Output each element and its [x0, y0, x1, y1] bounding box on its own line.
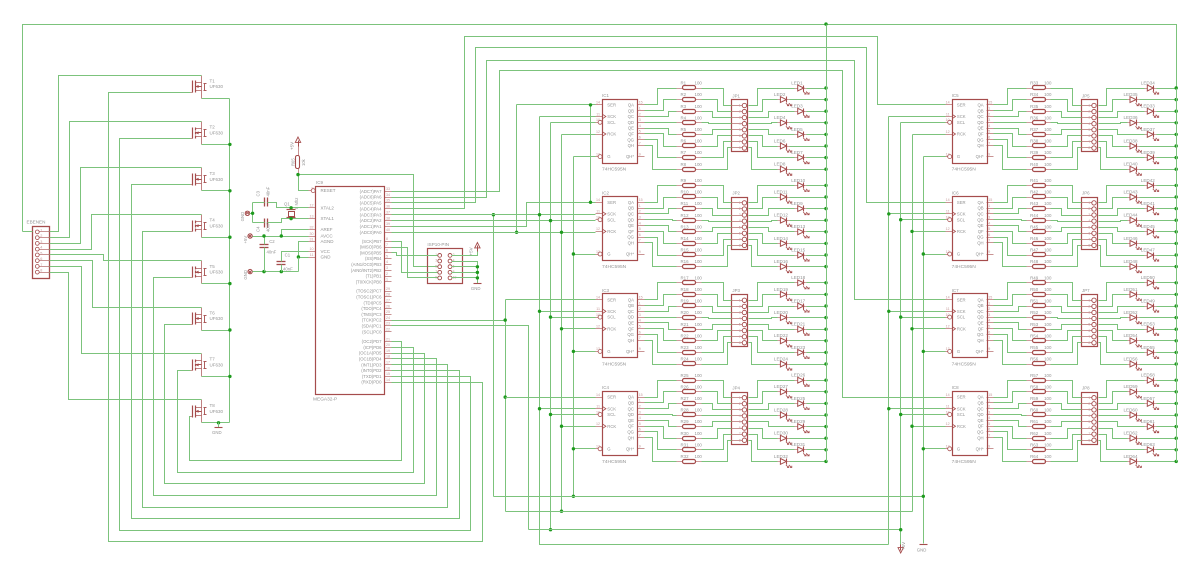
- wire SCL tap IC6: [901, 219, 946, 221]
- wire IC QH to R24: [645, 341, 677, 365]
- junction cathode rail: [1175, 184, 1178, 187]
- junction cathode rail: [824, 184, 827, 187]
- wire JP pin6 to LED46: [1099, 234, 1128, 244]
- svg-text:100: 100: [695, 333, 703, 338]
- LED15: [791, 247, 809, 261]
- svg-text:(SS)PB4: (SS)PB4: [365, 256, 382, 261]
- svg-text:SCK: SCK: [957, 309, 966, 314]
- svg-text:1: 1: [1088, 104, 1090, 108]
- svg-text:IC4: IC4: [602, 385, 610, 390]
- svg-text:(ADC6)PA6: (ADC6)PA6: [360, 195, 383, 200]
- svg-text:12: 12: [310, 204, 314, 208]
- svg-text:100: 100: [1044, 259, 1052, 264]
- wire GND row bottom: [253, 271, 299, 273]
- svg-text:(TMS)PC3: (TMS)PC3: [361, 312, 382, 317]
- svg-text:40nF: 40nF: [266, 222, 271, 232]
- wire JP pin7 to LED47: [1099, 240, 1145, 256]
- svg-text:G: G: [607, 154, 610, 159]
- svg-text:(TOSC1)PC6: (TOSC1)PC6: [356, 295, 382, 300]
- svg-text:3: 3: [1088, 408, 1090, 412]
- svg-text:QB: QB: [977, 303, 983, 308]
- wire RCK bus (right): [913, 134, 946, 136]
- svg-text:11: 11: [596, 112, 600, 116]
- LED27: [774, 384, 792, 398]
- svg-text:100: 100: [1044, 322, 1052, 327]
- junction cathode rail: [1175, 219, 1178, 222]
- svg-text:QH*: QH*: [976, 446, 984, 451]
- wire R21 to JP pin5: [702, 325, 732, 330]
- svg-text:3: 3: [639, 313, 641, 317]
- wire LED14 cathode to rail: [790, 243, 827, 245]
- svg-text:R4: R4: [681, 115, 687, 120]
- wire LED28 cathode to rail: [790, 415, 827, 417]
- svg-text:JP3: JP3: [732, 288, 740, 293]
- wire RCK tap IC4: [562, 426, 596, 428]
- svg-text:G: G: [607, 252, 610, 257]
- junction cathode rail: [1175, 242, 1178, 245]
- resistor R24 100: [677, 357, 703, 366]
- svg-text:8: 8: [1088, 243, 1090, 247]
- junction SCK bus: [538, 213, 541, 216]
- svg-text:16: 16: [386, 366, 390, 370]
- junction cathode rail: [824, 351, 827, 354]
- wire T8 gate to MCU PD0... net: [190, 342, 402, 461]
- svg-text:3: 3: [739, 408, 741, 412]
- ground flag GND: [240, 211, 249, 221]
- svg-text:LED13: LED13: [791, 224, 805, 229]
- svg-text:13: 13: [596, 152, 600, 156]
- svg-text:3: 3: [988, 118, 990, 122]
- wire R47 to JP pin7: [1051, 240, 1082, 256]
- svg-text:3: 3: [1088, 311, 1090, 315]
- LED64: [1124, 454, 1142, 468]
- svg-text:13: 13: [596, 445, 600, 449]
- svg-text:1: 1: [639, 107, 641, 111]
- junction cathode rail: [824, 133, 827, 136]
- wire R45 to JP pin5: [1051, 228, 1082, 232]
- junction cathode rail: [824, 281, 827, 284]
- transistor T2 UF630: [191, 122, 224, 145]
- resistor R65 10k: [291, 147, 307, 175]
- wire R19 to JP pin3: [702, 307, 732, 313]
- resistor R23 100: [677, 345, 703, 355]
- svg-text:2: 2: [1088, 110, 1090, 114]
- svg-text:2: 2: [988, 405, 990, 409]
- svg-text:3: 3: [739, 311, 741, 315]
- svg-text:EBENEN: EBENEN: [27, 220, 46, 225]
- wire JP pin3 to LED3: [749, 112, 795, 118]
- svg-text:R60: R60: [1030, 408, 1039, 413]
- svg-text:R55: R55: [1030, 345, 1039, 350]
- wire IC QA to R57: [994, 381, 1027, 398]
- wire R38 to JP pin6: [1051, 136, 1082, 147]
- svg-text:SCK: SCK: [607, 114, 616, 119]
- svg-text:R58: R58: [1030, 384, 1039, 389]
- svg-text:100: 100: [695, 127, 703, 132]
- svg-text:100: 100: [695, 431, 703, 436]
- wire RCK bus: [562, 134, 596, 136]
- junction C2 bottom: [262, 270, 265, 273]
- svg-text:11: 11: [596, 405, 600, 409]
- wire LED37 cathode to rail: [1157, 134, 1177, 136]
- svg-text:5: 5: [739, 420, 741, 424]
- svg-text:100: 100: [695, 299, 703, 304]
- wire IC QG to R39: [994, 140, 1027, 158]
- svg-text:QH: QH: [628, 241, 634, 246]
- wire LED3 cathode to rail: [807, 111, 827, 113]
- svg-text:8: 8: [1088, 341, 1090, 345]
- wire cathode net top right: [827, 25, 1177, 89]
- svg-text:QE: QE: [977, 223, 983, 228]
- junction cathode rail: [824, 316, 827, 319]
- wire LED39 cathode to rail: [1157, 157, 1177, 159]
- wire JP pin2 to LED27: [749, 392, 778, 404]
- wire JP pin1 to LED50: [1099, 283, 1145, 301]
- wire JP pin7 to LED15: [749, 240, 795, 256]
- svg-text:7: 7: [739, 335, 741, 339]
- svg-text:40nF: 40nF: [267, 250, 277, 255]
- LED4: [774, 115, 792, 129]
- svg-text:4: 4: [988, 416, 990, 420]
- svg-text:100: 100: [1044, 357, 1052, 362]
- wire SCK bus: [540, 116, 596, 118]
- junction PC2 riser: [504, 318, 507, 321]
- svg-text:100: 100: [1044, 104, 1052, 109]
- wire SCL tap IC7: [901, 317, 946, 319]
- wire LED25 cathode to rail: [807, 403, 827, 405]
- wire JP pin5 to LED37: [1099, 130, 1145, 135]
- svg-text:IC3: IC3: [602, 288, 610, 293]
- junction cathode rail: [824, 425, 827, 428]
- wire LED50 cathode to rail: [1157, 282, 1177, 284]
- wire LED43 cathode to rail: [1140, 197, 1177, 199]
- svg-text:1: 1: [639, 301, 641, 305]
- wire EBENEN pin5 to T5 drain: [50, 255, 202, 261]
- junction cathode rail: [824, 448, 827, 451]
- wire JP pin3 to LED49: [1099, 307, 1145, 313]
- svg-text:5: 5: [435, 264, 437, 268]
- svg-text:RCK: RCK: [607, 229, 616, 234]
- wire R50 to JP pin2: [1051, 295, 1082, 307]
- svg-text:6: 6: [988, 330, 990, 334]
- capacitor C1 40nF: [277, 253, 294, 272]
- svg-text:T4: T4: [210, 218, 216, 223]
- junction: [910, 425, 913, 428]
- svg-text:QD: QD: [628, 217, 634, 222]
- svg-text:R9: R9: [681, 178, 687, 183]
- wire LED49 cathode to rail: [1157, 306, 1177, 308]
- wire JP pin2 to LED11: [749, 198, 778, 209]
- wire cathode rail (middle column): [826, 25, 828, 462]
- wire JP pin2 to LED59: [1099, 392, 1128, 404]
- wire bottom net to GND (right): [494, 496, 924, 498]
- wire SCL bus (right) and +5V rail: [901, 122, 946, 124]
- svg-text:LED12: LED12: [774, 213, 788, 218]
- junction: [922, 447, 925, 450]
- svg-text:100: 100: [695, 178, 703, 183]
- svg-text:100: 100: [695, 115, 703, 120]
- wire IC QC to R35: [994, 112, 1027, 117]
- svg-text:100: 100: [695, 162, 703, 167]
- wire R57 to JP pin1: [1051, 381, 1082, 398]
- junction cathode rail: [824, 362, 827, 365]
- svg-text:2: 2: [639, 405, 641, 409]
- wire JP pin7 to LED63: [1099, 435, 1145, 450]
- svg-text:QC: QC: [628, 309, 634, 314]
- wire R58 to JP pin2: [1051, 392, 1082, 404]
- resistor R37 100: [1027, 127, 1052, 137]
- svg-text:LED37: LED37: [1141, 127, 1155, 132]
- wire IC QH to R64: [994, 438, 1027, 462]
- junction SCL tap: [549, 315, 552, 318]
- svg-text:LED59: LED59: [1124, 384, 1138, 389]
- junction cathode rail: [1175, 351, 1178, 354]
- wire SCL bus: [551, 122, 596, 124]
- svg-text:1: 1: [739, 396, 741, 400]
- junction: [910, 230, 913, 233]
- wire JP pin6 to LED14: [749, 234, 778, 244]
- wire GND to C3/C4: [250, 213, 253, 215]
- wire IC QG to R15: [645, 238, 677, 256]
- wire IC QF to R62: [994, 427, 1027, 439]
- wire T8 source: [202, 422, 230, 424]
- resistor R56 100: [1027, 357, 1052, 366]
- junction RCK tap: [560, 425, 563, 428]
- svg-text:LED18: LED18: [791, 275, 805, 280]
- svg-text:15: 15: [386, 372, 390, 376]
- svg-text:QA: QA: [977, 103, 983, 108]
- svg-text:9: 9: [988, 250, 990, 254]
- resistor R25 100: [677, 373, 703, 383]
- svg-text:10: 10: [946, 313, 950, 317]
- wire R15 to JP pin7: [702, 240, 732, 256]
- svg-text:10: 10: [596, 313, 600, 317]
- svg-text:R18: R18: [681, 287, 690, 292]
- junction cathode rail: [824, 242, 827, 245]
- svg-text:QD: QD: [628, 412, 634, 417]
- wire R39 to JP pin7: [1051, 142, 1082, 158]
- svg-text:GND: GND: [240, 212, 245, 222]
- resistor R45 100: [1027, 224, 1052, 233]
- wire IC QH to R56: [994, 341, 1027, 365]
- svg-text:JP1: JP1: [732, 93, 740, 98]
- wire C2 top: [264, 237, 266, 245]
- wire R23 to JP pin7: [702, 337, 732, 353]
- junction cathode rail: [824, 402, 827, 405]
- wire RCK tap IC6: [913, 231, 946, 233]
- wire ISP ground pins: [452, 262, 478, 284]
- svg-text:QG: QG: [627, 235, 634, 240]
- wire MCU PB5 (MOSI) to ISP pin1: [392, 253, 438, 256]
- svg-text:XTAL1: XTAL1: [321, 216, 335, 221]
- wire R56 to JP pin8: [1051, 343, 1082, 365]
- svg-text:IC7: IC7: [952, 288, 960, 293]
- svg-text:LED21: LED21: [791, 322, 805, 327]
- svg-text:(T0/XCK)PB0: (T0/XCK)PB0: [356, 279, 382, 284]
- svg-text:R54: R54: [1030, 333, 1039, 338]
- wire R44 to JP pin4: [1051, 221, 1082, 222]
- wire IC QE to R37: [994, 129, 1027, 135]
- svg-text:8: 8: [739, 438, 741, 442]
- wire LED21 cathode to rail: [807, 329, 827, 331]
- resistor R8 100: [677, 162, 703, 172]
- svg-text:(ADC0)PA0: (ADC0)PA0: [360, 230, 383, 235]
- svg-text:RCK: RCK: [957, 424, 966, 429]
- svg-text:UF630: UF630: [210, 84, 224, 89]
- svg-text:100: 100: [695, 190, 703, 195]
- wire R41 to JP pin1: [1051, 186, 1082, 203]
- resistor R6 100: [677, 139, 703, 148]
- resistor R46 100: [1027, 236, 1052, 246]
- resistor R42 100: [1027, 190, 1052, 199]
- svg-text:14: 14: [596, 393, 600, 397]
- svg-text:2: 2: [386, 272, 388, 276]
- LED7: [791, 150, 809, 164]
- wire R34 to JP pin2: [1051, 100, 1082, 112]
- svg-text:R42: R42: [1030, 190, 1039, 195]
- svg-text:100: 100: [695, 81, 703, 86]
- svg-text:7: 7: [988, 434, 990, 438]
- svg-text:LED22: LED22: [774, 333, 788, 338]
- wire LED45 cathode to rail: [1157, 231, 1177, 233]
- wire T6 gate to MCU PD2... net: [165, 325, 425, 484]
- svg-text:100: 100: [695, 454, 703, 459]
- svg-text:100: 100: [1044, 287, 1052, 292]
- svg-text:10: 10: [946, 118, 950, 122]
- svg-text:40: 40: [386, 228, 390, 232]
- svg-text:10: 10: [946, 216, 950, 220]
- svg-text:12: 12: [596, 325, 600, 329]
- svg-text:QC: QC: [628, 114, 634, 119]
- svg-text:LED56: LED56: [1124, 356, 1138, 361]
- junction cathode rail: [1175, 379, 1178, 382]
- wire SCK bus (right): [889, 116, 946, 118]
- svg-text:100: 100: [695, 287, 703, 292]
- LED39: [1141, 150, 1159, 164]
- svg-text:UF630: UF630: [210, 223, 224, 228]
- svg-text:4: 4: [1088, 414, 1090, 418]
- junction GND net: [297, 255, 300, 258]
- wire LED5 cathode to rail: [807, 134, 827, 136]
- resistor R22 100: [677, 333, 703, 342]
- wire LED42 cathode to rail: [1157, 185, 1177, 187]
- junction G tap: [572, 252, 575, 255]
- wire R64 to JP pin8: [1051, 441, 1082, 462]
- wire IC QB to R50: [994, 295, 1027, 306]
- wire R29 to JP pin5: [702, 422, 732, 427]
- svg-text:100: 100: [695, 442, 703, 447]
- resistor R38 100: [1027, 139, 1052, 148]
- wire R54 to JP pin6: [1051, 331, 1082, 341]
- svg-text:2: 2: [739, 110, 741, 114]
- svg-text:10: 10: [596, 410, 600, 414]
- wire JP pin5 to LED5: [749, 130, 795, 135]
- LED11: [774, 189, 792, 203]
- svg-text:1: 1: [386, 278, 388, 282]
- wire JP pin5 to LED45: [1099, 228, 1145, 232]
- svg-text:2: 2: [739, 402, 741, 406]
- LED8: [774, 162, 792, 176]
- resistor R29 100: [677, 419, 703, 428]
- wire R26 to JP pin2: [702, 392, 732, 404]
- wire IC QC to R19: [645, 307, 677, 312]
- junction cathode rail: [824, 230, 827, 233]
- svg-text:GND: GND: [321, 255, 332, 260]
- wire EBENEN pin2 to T2 drain: [50, 122, 202, 238]
- wire IC QC to R43: [994, 209, 1027, 214]
- svg-text:T6: T6: [210, 310, 216, 315]
- svg-text:R37: R37: [1030, 127, 1039, 132]
- svg-text:RCK: RCK: [957, 132, 966, 137]
- svg-text:100: 100: [1044, 162, 1052, 167]
- svg-text:74HC595N: 74HC595N: [952, 264, 977, 270]
- svg-text:100: 100: [695, 384, 703, 389]
- svg-text:74HC595N: 74HC595N: [952, 361, 977, 367]
- svg-text:8: 8: [386, 237, 388, 241]
- svg-text:100: 100: [1044, 454, 1052, 459]
- svg-text:100: 100: [695, 236, 703, 241]
- svg-text:5: 5: [988, 227, 990, 231]
- wire T2 source: [202, 144, 230, 146]
- wire R32 to JP pin8: [702, 441, 732, 462]
- svg-text:5: 5: [988, 130, 990, 134]
- wire JP pin4 to LED52: [1099, 318, 1128, 319]
- shift register IC4 74HC595N: [596, 385, 645, 465]
- svg-text:QF: QF: [628, 424, 634, 429]
- svg-text:2: 2: [739, 304, 741, 308]
- svg-text:QF: QF: [978, 229, 984, 234]
- wire AREF down to AVCC row: [282, 230, 309, 237]
- svg-text:R43: R43: [1030, 201, 1039, 206]
- resistor R47 100: [1027, 248, 1052, 257]
- wire MCU PA7 to IC8 SER: [392, 71, 946, 398]
- svg-text:13: 13: [946, 152, 950, 156]
- LED49: [1141, 298, 1159, 312]
- svg-text:UF630: UF630: [210, 131, 224, 136]
- svg-text:QF: QF: [628, 132, 634, 137]
- svg-text:6: 6: [1088, 134, 1090, 138]
- wire SCK tap IC4: [540, 408, 596, 410]
- svg-text:LED49: LED49: [1141, 298, 1155, 303]
- junction cathode rail: [1175, 362, 1178, 365]
- svg-text:LED27: LED27: [774, 384, 788, 389]
- svg-text:100: 100: [1044, 213, 1052, 218]
- svg-text:QG: QG: [627, 332, 634, 337]
- svg-text:LED47: LED47: [1141, 247, 1155, 252]
- svg-text:QB: QB: [628, 108, 634, 113]
- svg-text:(ADC2)PA2: (ADC2)PA2: [360, 218, 383, 223]
- junction source bus: [228, 328, 231, 331]
- svg-text:SCL: SCL: [607, 315, 616, 320]
- svg-text:100: 100: [1044, 178, 1052, 183]
- svg-text:28: 28: [386, 293, 390, 297]
- svg-text:RCK: RCK: [607, 424, 616, 429]
- wire R53 to JP pin5: [1051, 325, 1082, 330]
- svg-text:LED38: LED38: [1124, 138, 1138, 143]
- svg-text:8: 8: [1088, 146, 1090, 150]
- svg-text:RCK: RCK: [957, 229, 966, 234]
- LED3: [791, 104, 809, 118]
- shift register IC3 74HC595N: [596, 288, 645, 368]
- junction cathode rail: [824, 339, 827, 342]
- wire G bus: [574, 156, 596, 158]
- svg-text:R45: R45: [1030, 224, 1039, 229]
- svg-text:6: 6: [739, 329, 741, 333]
- svg-text:QH*: QH*: [626, 446, 634, 451]
- wire SCK tap IC7: [889, 311, 946, 313]
- svg-text:LED23: LED23: [791, 345, 805, 350]
- connector SV2 ISP10-PIN: [427, 242, 462, 283]
